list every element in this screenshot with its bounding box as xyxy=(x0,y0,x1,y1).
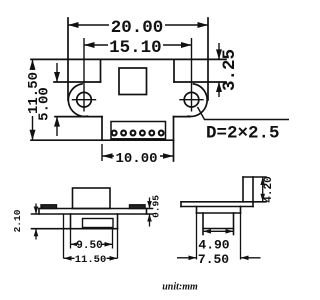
dimension 11.50 bottom line xyxy=(64,257,118,259)
mounting hole left xyxy=(77,92,92,107)
dimension 4.20 line xyxy=(262,177,264,202)
arrowhead 9.50 left xyxy=(71,242,79,247)
svg-text:2.10: 2.10 xyxy=(12,209,23,232)
mounting hole left crosshair horizontal xyxy=(73,99,96,101)
dimension 9.50 left extension xyxy=(70,229,72,249)
dimension 7.50 right arrow shaft xyxy=(241,257,261,259)
top view: bottom edge left with 5.00 tick xyxy=(55,116,102,118)
arrowhead 20.00 left xyxy=(68,22,79,28)
arrowhead 15.10 right xyxy=(181,42,192,48)
front view plate right edge xyxy=(146,209,148,215)
dimension 0.95 down arrow shaft xyxy=(149,198,151,209)
dimension 7.50 right extension xyxy=(240,213,242,260)
arrowhead 10.00 left xyxy=(102,153,113,159)
svg-text:D=2×2.5: D=2×2.5 xyxy=(206,124,280,144)
dimension 2.10 up arrow shaft xyxy=(35,229,37,240)
dimension 11.50 bottom right extension xyxy=(117,229,119,259)
front view lower body left side xyxy=(70,214,72,229)
arrowhead 3.25 up xyxy=(216,82,222,92)
svg-text:20.00: 20.00 xyxy=(111,18,164,38)
top view: top edge with 11.50 and 3.25 ticks xyxy=(31,58,226,60)
dimension 5.00 top arrow shaft xyxy=(56,63,58,82)
svg-text:unit:mm: unit:mm xyxy=(162,282,198,293)
arrowhead 5.00 down xyxy=(54,72,60,82)
front view right ear tab xyxy=(130,205,146,209)
arrowhead 2.10 down xyxy=(34,207,39,215)
side view post left edge xyxy=(242,177,244,202)
top view: right step vertical xyxy=(173,59,175,82)
dimension 7.50 left arrow shaft xyxy=(177,257,197,259)
arrowhead 9.50 right xyxy=(105,242,113,247)
svg-text:0.95: 0.95 xyxy=(151,195,162,218)
svg-text:5.00: 5.00 xyxy=(37,87,53,121)
front view flange plate bottom line with 0.95 tick and 2.10 tick xyxy=(32,213,153,215)
svg-text:4.90: 4.90 xyxy=(198,238,229,253)
svg-text:4.20: 4.20 xyxy=(263,176,275,202)
dimension text 9.50 xyxy=(76,239,102,252)
side view step1 bottom xyxy=(197,212,241,214)
side view plate bottom line xyxy=(181,206,253,208)
dimension text 7.50 xyxy=(198,252,231,267)
front view plate left edge xyxy=(38,209,40,215)
dimension text 20.00 xyxy=(109,18,165,38)
arrowhead 4.90 right xyxy=(226,229,234,234)
dimension 10.00 line xyxy=(102,155,174,157)
arrowhead 11.50 down xyxy=(30,130,36,141)
dimension text 10.00 xyxy=(114,150,160,167)
front view connector recess rect xyxy=(83,219,114,228)
dimension 0.95 up arrow shaft xyxy=(149,214,151,227)
dimension text 15.10 xyxy=(108,38,163,58)
top view: bottom edge right xyxy=(174,116,191,118)
svg-text:7.50: 7.50 xyxy=(198,252,229,267)
front view lower body bottom with 2.10 tick xyxy=(32,228,118,230)
arrowhead 7.50 right xyxy=(241,256,249,261)
svg-text:3.25: 3.25 xyxy=(220,49,240,91)
dimension 15.10 line xyxy=(84,44,192,46)
arrowhead 7.50 left xyxy=(189,256,197,261)
svg-text:15.10: 15.10 xyxy=(109,38,162,58)
side view step2 bottom xyxy=(203,228,234,230)
pin 1 xyxy=(112,131,117,136)
side view step2 right with 4.90 stub xyxy=(233,213,235,235)
front view left ear tab xyxy=(41,205,57,209)
dimension 9.50 line xyxy=(71,243,113,245)
arrowhead 0.95 up xyxy=(147,214,152,222)
arrowhead 0.95 down xyxy=(147,201,152,209)
top view: left edge / 20.00 extension xyxy=(67,18,69,100)
arrowhead 2.10 up xyxy=(34,229,39,237)
pin 4 xyxy=(140,131,145,136)
top view: right boss arc xyxy=(188,84,207,117)
dimension 4.90 line xyxy=(203,230,234,232)
top view: left shoulder line with 5.00 tick xyxy=(54,81,101,83)
arrowhead 5.00 up xyxy=(54,117,60,127)
mounting hole right crosshair horizontal xyxy=(180,99,203,101)
pin 2 xyxy=(121,131,126,136)
mounting hole right xyxy=(184,92,199,107)
pin 6 xyxy=(159,131,164,136)
pin 5 xyxy=(149,131,154,136)
arrowhead 11.50 bottom left xyxy=(64,256,72,261)
dimension 3.25 bottom arrow shaft xyxy=(218,82,220,97)
top view: left step vertical xyxy=(100,59,102,82)
arrowhead 4.20 up xyxy=(260,177,265,185)
svg-text:9.50: 9.50 xyxy=(76,240,102,252)
arrowhead 4.90 left xyxy=(203,229,211,234)
side view plate and post right edge xyxy=(252,177,254,207)
dimension text 4.90 xyxy=(198,238,231,253)
connector outer left side xyxy=(101,117,103,141)
top view: right edge / 20.00 extension xyxy=(207,18,209,100)
top view: right shoulder line with 3.25 tick xyxy=(174,81,226,83)
connector inner rect xyxy=(111,122,166,139)
side view step1 left xyxy=(196,207,198,214)
side view plate top line with 4.20 tick xyxy=(181,201,266,203)
arrowhead 20.00 right xyxy=(198,22,209,28)
dimension 3.25 top arrow shaft xyxy=(218,43,220,59)
dimension 15.10 left extension / hole crosshair vertical xyxy=(83,38,85,112)
top view: left boss arc xyxy=(68,84,87,117)
svg-text:11.50: 11.50 xyxy=(75,254,107,266)
front view lower body right side xyxy=(117,214,119,229)
arrowhead 11.50 bottom right xyxy=(110,256,118,261)
side view post top with 4.20 tick xyxy=(243,176,266,178)
leader line for D=2x2.5 xyxy=(198,107,290,120)
dimension 10.00 left extension xyxy=(101,144,103,161)
arrowhead 10.00 right xyxy=(163,153,174,159)
arrowhead 15.10 left xyxy=(84,42,95,48)
dimension 15.10 right extension / hole crosshair vertical xyxy=(191,38,193,112)
pin 3 xyxy=(131,131,136,136)
front view flange plate top line with 0.95 tick xyxy=(39,208,153,210)
dimension 20.00 line xyxy=(68,24,208,26)
dimension 9.50 right extension xyxy=(112,228,114,249)
dimension text 11.50 left xyxy=(26,70,44,116)
svg-text:10.00: 10.00 xyxy=(115,151,157,167)
front view head block xyxy=(73,188,111,209)
side view plate left edge xyxy=(180,202,182,207)
dimension 11.50 bottom left extension xyxy=(63,214,65,258)
arrowhead 4.20 down xyxy=(260,194,265,202)
dimension text 11.50 bottom xyxy=(75,254,107,267)
sensor window square xyxy=(119,68,147,95)
dimension 11.50 vertical line xyxy=(32,59,34,140)
dimension 7.50 left extension xyxy=(196,213,198,260)
side view step2 left with 4.90 stub xyxy=(202,213,204,235)
dimension 2.10 down arrow shaft xyxy=(35,204,37,215)
connector outer right side / 10.00 extension xyxy=(173,117,175,161)
connector bottom with 11.50 tick xyxy=(31,139,174,141)
arrowhead 11.50 up xyxy=(30,59,36,70)
side view step1 right xyxy=(240,207,242,214)
dimension 5.00 bottom arrow shaft xyxy=(56,117,58,136)
arrowhead 3.25 down xyxy=(216,49,222,59)
